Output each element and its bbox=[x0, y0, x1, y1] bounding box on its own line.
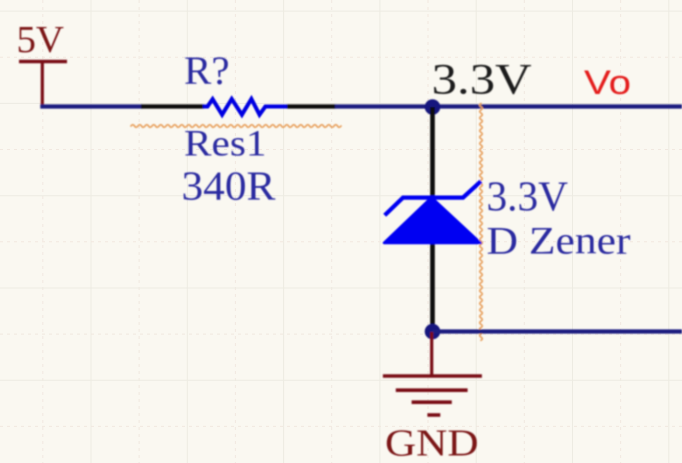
resistor R? pin 2 (black) bbox=[287, 104, 336, 108]
svg-text:340R: 340R bbox=[182, 163, 277, 209]
wire vertical to zener (black) bbox=[430, 107, 435, 331]
resistor R? zigzag body bbox=[203, 99, 287, 115]
power symbol 5V lead bbox=[41, 62, 44, 108]
svg-text:Res1: Res1 bbox=[184, 124, 267, 165]
junction dot bottom bbox=[425, 324, 441, 340]
ground bar 4 bbox=[427, 413, 440, 417]
ground bar 1 bbox=[383, 374, 482, 378]
svg-text:3.3V: 3.3V bbox=[487, 174, 569, 221]
wire bottom-right (blue) bbox=[433, 329, 682, 333]
power symbol 5V bar bbox=[19, 60, 67, 63]
svg-text:Vo: Vo bbox=[584, 64, 631, 102]
ground lead bbox=[430, 332, 433, 376]
junction dot top bbox=[425, 99, 441, 115]
resistor R? pin 1 (black) bbox=[141, 104, 204, 108]
zener diode D cathode bar bbox=[385, 181, 481, 215]
ground bar 2 bbox=[396, 388, 468, 392]
svg-text:R?: R? bbox=[184, 48, 230, 93]
error squiggle vertical bbox=[480, 104, 483, 341]
wire top-left (blue) bbox=[40, 104, 142, 108]
svg-text:3.3V: 3.3V bbox=[432, 56, 532, 104]
svg-text:D Zener: D Zener bbox=[487, 219, 631, 263]
error squiggle under resistor bbox=[131, 125, 341, 128]
zener diode D triangle bbox=[384, 198, 481, 243]
ground bar 3 bbox=[412, 400, 452, 404]
svg-text:5V: 5V bbox=[17, 19, 65, 61]
wire top-middle to right edge (blue) bbox=[335, 104, 682, 108]
svg-text:GND: GND bbox=[385, 423, 479, 463]
